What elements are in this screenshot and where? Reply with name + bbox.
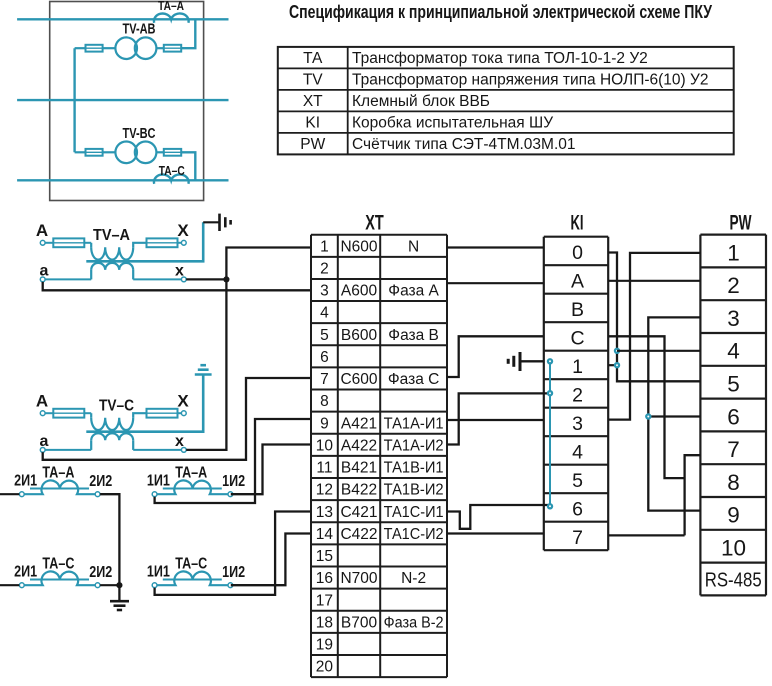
- svg-text:TV–A: TV–A: [93, 227, 130, 244]
- svg-text:5: 5: [320, 327, 329, 344]
- svg-text:ХТ: ХТ: [303, 93, 323, 110]
- wire XT:9 to KI:3: [447, 419, 544, 421]
- svg-text:ТА1А-И2: ТА1А-И2: [384, 437, 444, 454]
- terminal A of TV-C: [40, 411, 45, 416]
- svg-text:A421: A421: [341, 415, 377, 432]
- svg-text:9: 9: [320, 415, 329, 432]
- wire KI:C via V4 to zigzag: [608, 336, 684, 478]
- svg-text:TV–C: TV–C: [99, 398, 134, 415]
- wire XT:14 to KI:7: [447, 532, 544, 534]
- wire 2I1 TA-A to left edge: [0, 493, 19, 495]
- svg-text:ТА–С: ТА–С: [175, 556, 207, 573]
- svg-text:2И2: 2И2: [89, 564, 112, 581]
- svg-text:1: 1: [727, 240, 740, 265]
- svg-text:N700: N700: [340, 570, 377, 587]
- svg-text:ТА1В-И2: ТА1В-И2: [384, 482, 444, 499]
- svg-text:Коробка испытательная ШУ: Коробка испытательная ШУ: [352, 115, 553, 132]
- svg-text:C600: C600: [340, 371, 377, 388]
- wire: bus A to TV-AB: [181, 19, 195, 48]
- svg-text:KI: KI: [305, 115, 320, 132]
- svg-text:a: a: [40, 263, 49, 280]
- wire XT:3 to KI:A: [447, 282, 544, 284]
- svg-text:2: 2: [727, 273, 740, 298]
- TV-C secondary winding: [91, 433, 133, 440]
- svg-text:20: 20: [316, 659, 334, 676]
- svg-text:B600: B600: [341, 327, 378, 344]
- spec table frame: [278, 47, 734, 154]
- current transformer TA-A (one-line): [154, 13, 189, 22]
- svg-text:ТА–А: ТА–А: [175, 465, 207, 482]
- wire common node to PW:6: [648, 415, 700, 417]
- svg-text:A: A: [571, 270, 584, 292]
- wire TA-A 1I2 to XT:10: [231, 445, 311, 495]
- svg-text:Фаза В-2: Фаза В-2: [384, 614, 444, 631]
- wire TA-C 1I2 to XT:14: [231, 534, 311, 586]
- svg-text:TV: TV: [303, 72, 323, 89]
- svg-text:8: 8: [727, 470, 740, 495]
- svg-text:2И2: 2И2: [89, 473, 112, 490]
- svg-text:11: 11: [316, 460, 332, 477]
- ground (TV-A screen): [203, 221, 219, 223]
- wire XT:7 to KI:C: [447, 336, 544, 377]
- fuse TV-A primary A-side: [53, 238, 84, 247]
- wire TV-A x to XT:1: [186, 248, 311, 280]
- terminal a of TV-A: [40, 277, 45, 282]
- svg-text:A: A: [36, 392, 48, 411]
- svg-text:X: X: [177, 221, 189, 240]
- svg-text:ТА–А: ТА–А: [42, 465, 74, 482]
- junction x common (N600): [223, 276, 229, 282]
- equipment outline box: [50, 2, 204, 201]
- wire common PW:3 to PW:9: [648, 317, 700, 510]
- svg-text:14: 14: [316, 526, 334, 543]
- current transformer TA-C winding 2I: [19, 583, 24, 588]
- fuse TV-C primary X-side: [147, 409, 178, 418]
- node common: [645, 413, 651, 419]
- svg-text:6: 6: [572, 498, 583, 520]
- terminal X of TV-A: [181, 240, 186, 245]
- svg-text:7: 7: [572, 527, 583, 549]
- svg-text:1: 1: [572, 356, 583, 378]
- ground (KI row 1): [520, 360, 544, 362]
- ground (TV-C screen): [195, 373, 212, 376]
- TV-A secondary winding: [91, 263, 133, 270]
- svg-text:2: 2: [572, 384, 583, 406]
- svg-text:Фаза А: Фаза А: [388, 283, 439, 300]
- svg-text:Трансформатор напряжения типа: Трансформатор напряжения типа НОЛП-6(10)…: [352, 72, 708, 89]
- fuse TV-A primary X-side: [147, 238, 178, 247]
- wire TA-A 1I1 to XT:9: [155, 419, 311, 503]
- svg-text:16: 16: [316, 570, 333, 587]
- junction 2I2 common: [116, 582, 122, 588]
- svg-text:ТА–С: ТА–С: [42, 556, 74, 573]
- wire TA-C 1I1 to XT:13: [155, 512, 311, 595]
- svg-text:A: A: [36, 221, 48, 240]
- terminal X of TV-C: [181, 411, 186, 416]
- svg-text:19: 19: [316, 637, 333, 654]
- fuse TV-C primary A-side: [53, 409, 84, 418]
- svg-text:7: 7: [727, 437, 740, 462]
- terminal x of TV-C: [181, 448, 186, 453]
- svg-text:15: 15: [316, 548, 333, 565]
- svg-text:5: 5: [572, 470, 583, 492]
- terminal x of TV-A: [181, 277, 186, 282]
- wire KI:1 to node: [608, 364, 617, 366]
- wire XT:13 to KI:6: [447, 505, 550, 529]
- svg-text:8: 8: [320, 393, 329, 410]
- svg-text:Фаза С: Фаза С: [388, 371, 439, 388]
- svg-text:6: 6: [320, 349, 329, 366]
- bus phase B: [17, 99, 228, 101]
- TV-C primary winding: [90, 413, 92, 418]
- TV-C core line to ground: [86, 375, 203, 432]
- svg-text:ТА–С: ТА–С: [159, 164, 185, 178]
- svg-text:B: B: [571, 299, 584, 321]
- wire node V1a to PW:4: [617, 350, 700, 352]
- current transformer TA-A winding 2I: [19, 492, 24, 497]
- wire XT:1 to KI:0: [447, 246, 544, 248]
- svg-text:Спецификация к принципиальной: Спецификация к принципиальной электричес…: [289, 1, 712, 22]
- svg-text:6: 6: [727, 404, 740, 429]
- svg-text:4: 4: [320, 305, 329, 322]
- svg-text:A422: A422: [341, 437, 377, 454]
- svg-text:N: N: [408, 238, 419, 255]
- svg-text:TV-BC: TV-BC: [123, 126, 156, 142]
- svg-text:x: x: [175, 263, 184, 280]
- svg-text:4: 4: [727, 339, 740, 364]
- svg-text:18: 18: [316, 614, 333, 631]
- wire 2I2 TA-C to junction: [100, 584, 117, 586]
- svg-text:7: 7: [320, 371, 329, 388]
- link node KI:1: [547, 358, 553, 364]
- wire KI:A to PW:2: [608, 280, 700, 282]
- wire KI:0 to PW:5: [608, 253, 700, 382]
- wire 2I1 TA-C to left edge: [0, 584, 19, 586]
- wire KI:7 to riser: [608, 534, 684, 536]
- svg-text:5: 5: [727, 372, 740, 397]
- svg-text:XT: XT: [365, 210, 384, 234]
- bus phase A: [17, 18, 228, 20]
- wire 2I2 TA-A down to ground: [100, 494, 119, 601]
- wire TV-A a to XT:3: [43, 282, 311, 290]
- svg-text:KI: KI: [571, 210, 584, 234]
- link node KI:2: [547, 390, 553, 396]
- svg-text:ТА–А: ТА–А: [158, 0, 184, 13]
- svg-text:Фаза В: Фаза В: [388, 327, 439, 344]
- svg-text:ТА: ТА: [303, 50, 323, 67]
- wire KI:3 to PW:1: [608, 253, 700, 420]
- svg-text:Трансформатор тока типа ТОЛ-10: Трансформатор тока типа ТОЛ-10-1-2 У2: [352, 50, 648, 67]
- svg-text:C421: C421: [340, 504, 377, 521]
- svg-text:1И2: 1И2: [222, 473, 245, 490]
- wire TV-C x to junction: [186, 279, 226, 450]
- test link (KI rows 1-2-6): [549, 361, 551, 507]
- svg-text:N600: N600: [340, 238, 377, 255]
- svg-text:4: 4: [572, 441, 583, 463]
- svg-text:TV-AB: TV-AB: [123, 22, 156, 38]
- svg-text:10: 10: [721, 536, 746, 561]
- svg-text:1И2: 1И2: [222, 564, 245, 581]
- svg-text:1И1: 1И1: [147, 473, 170, 490]
- svg-text:10: 10: [316, 437, 334, 454]
- current transformer TA-C winding 1I: [152, 583, 157, 588]
- svg-text:2: 2: [320, 260, 329, 277]
- svg-text:17: 17: [316, 592, 333, 609]
- svg-text:RS-485: RS-485: [705, 569, 762, 591]
- svg-text:N-2: N-2: [401, 570, 426, 587]
- svg-text:3: 3: [572, 413, 583, 435]
- ground (2I circuits): [110, 600, 129, 603]
- svg-text:12: 12: [316, 482, 333, 499]
- svg-text:Счётчик типа СЭТ-4ТМ.03М.01: Счётчик типа СЭТ-4ТМ.03М.01: [352, 136, 576, 153]
- wire XT:10 to KI:2: [447, 393, 550, 444]
- svg-text:C: C: [570, 327, 584, 349]
- svg-text:13: 13: [316, 504, 333, 521]
- wire: TV-AB left to bus B and TV-BC: [73, 48, 75, 152]
- svg-text:3: 3: [727, 306, 740, 331]
- svg-text:2И1: 2И1: [14, 564, 37, 581]
- svg-text:C422: C422: [340, 526, 377, 543]
- wire TV-C a to XT:7: [43, 378, 311, 460]
- svg-text:A600: A600: [341, 283, 378, 300]
- svg-text:X: X: [177, 392, 189, 411]
- current transformer TA-C (one-line): [154, 174, 189, 183]
- svg-text:a: a: [40, 433, 49, 450]
- svg-text:B421: B421: [341, 460, 377, 477]
- svg-text:9: 9: [727, 503, 740, 528]
- svg-text:ТА1В-И1: ТА1В-И1: [384, 460, 444, 477]
- svg-text:ТА1А-И1: ТА1А-И1: [384, 415, 444, 432]
- terminal a of TV-C: [40, 448, 45, 453]
- svg-text:B422: B422: [341, 482, 377, 499]
- wire riser to PW:7: [685, 455, 701, 535]
- TV-A core line to ground: [86, 222, 203, 261]
- bus phase C: [17, 179, 228, 181]
- svg-text:2И1: 2И1: [14, 473, 37, 490]
- svg-text:Клемный блок ВВБ: Клемный блок ВВБ: [352, 93, 490, 110]
- svg-text:ТА1С-И2: ТА1С-И2: [384, 526, 444, 543]
- node V1a: [614, 348, 620, 354]
- svg-text:B700: B700: [341, 614, 378, 631]
- wire: TV-BC right to bus C: [181, 152, 195, 180]
- current transformer TA-A winding 1I: [152, 492, 157, 497]
- svg-text:1И1: 1И1: [147, 564, 170, 581]
- svg-text:0: 0: [572, 242, 583, 264]
- node V1b: [614, 362, 620, 368]
- svg-text:PW: PW: [730, 210, 752, 234]
- link node KI:6: [547, 503, 553, 509]
- svg-text:x: x: [175, 433, 184, 450]
- svg-text:1: 1: [320, 238, 329, 255]
- TV-A primary winding: [90, 243, 92, 248]
- terminal A of TV-A: [40, 240, 45, 245]
- svg-text:3: 3: [320, 283, 329, 300]
- svg-text:ТА1С-И1: ТА1С-И1: [384, 504, 444, 521]
- svg-text:PW: PW: [300, 136, 325, 153]
